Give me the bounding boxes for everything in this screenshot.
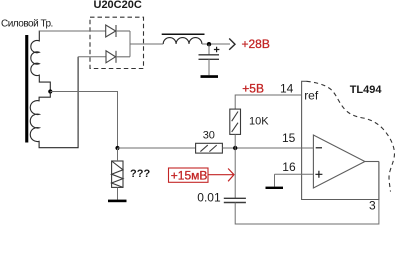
wire rectifier output to inductor	[130, 43, 163, 45]
op-amp U1	[313, 135, 365, 188]
wire pin16 plus input	[275, 173, 314, 175]
op-amp plus sign	[315, 171, 322, 178]
svg-text:???: ???	[130, 168, 150, 180]
dashed rectifier box	[90, 17, 144, 68]
capacitor C-out plus sign	[214, 47, 220, 52]
wire resistor 30 to junction B / pin15	[222, 147, 301, 149]
diode D2	[106, 51, 130, 63]
capacitor 0.01	[224, 198, 246, 202]
junction node A	[115, 146, 119, 150]
wire 10K to junction B	[234, 134, 236, 148]
ground stub pin16	[274, 174, 276, 186]
wire capacitor 0.01 to pin3	[235, 162, 379, 225]
resistor R 30	[196, 143, 223, 153]
wire junction to resistor 30	[118, 147, 196, 149]
TL494 dashed outline	[307, 81, 395, 191]
svg-text:3: 3	[369, 199, 376, 213]
wire transformer top to diode D1	[39, 30, 105, 32]
wire lower winding to diode D2	[78, 56, 106, 58]
svg-text:16: 16	[282, 160, 296, 174]
component R???	[112, 161, 123, 187]
svg-text:+5В: +5В	[242, 82, 264, 96]
op-amp minus sign	[316, 147, 322, 149]
diode junction wire	[129, 31, 131, 57]
wire junction to R???	[117, 148, 119, 161]
node +28V	[207, 42, 211, 46]
svg-text:30: 30	[203, 129, 215, 141]
transformer centre tap node	[48, 89, 52, 93]
wire R??? to ground	[117, 187, 119, 199]
diode D1	[106, 25, 130, 37]
inductor L1	[163, 38, 202, 44]
svg-text:ref: ref	[304, 88, 319, 102]
resistor 10K	[230, 109, 241, 134]
centre tap wire to junction	[50, 92, 117, 149]
ground under C-out	[201, 75, 219, 78]
wire inductor to node	[202, 43, 230, 45]
svg-text:10K: 10K	[249, 116, 269, 128]
ground under R???	[108, 200, 127, 203]
arrow to +28V	[229, 39, 235, 50]
inductor L1 core line	[162, 33, 205, 35]
svg-text:+28В: +28В	[242, 37, 270, 51]
svg-text:U20C20C: U20C20C	[94, 0, 142, 11]
ground under pin16	[266, 187, 284, 189]
label +15мВ box	[169, 168, 209, 182]
junction node B	[233, 146, 237, 150]
svg-text:Силовой Тр.: Силовой Тр.	[1, 19, 53, 30]
op-amp output wire	[365, 161, 379, 163]
svg-text:0.01: 0.01	[197, 191, 221, 205]
TL494 box	[302, 81, 379, 199]
capacitor C-out	[199, 44, 220, 75]
wire pin15 into minus input	[302, 147, 314, 149]
red arrow +15мВ	[208, 169, 234, 182]
svg-text:15: 15	[282, 131, 296, 145]
wire pin14 to 10K	[235, 95, 301, 109]
svg-text:TL494: TL494	[350, 84, 383, 96]
transformer T1 core	[25, 35, 28, 143]
svg-text:+15мВ: +15мВ	[171, 168, 208, 182]
transformer T1 primary upper winding	[31, 31, 106, 92]
transformer T1 lower winding	[30, 57, 78, 148]
svg-text:14: 14	[280, 82, 294, 96]
wire junction B to capacitor 0.01	[234, 148, 236, 198]
